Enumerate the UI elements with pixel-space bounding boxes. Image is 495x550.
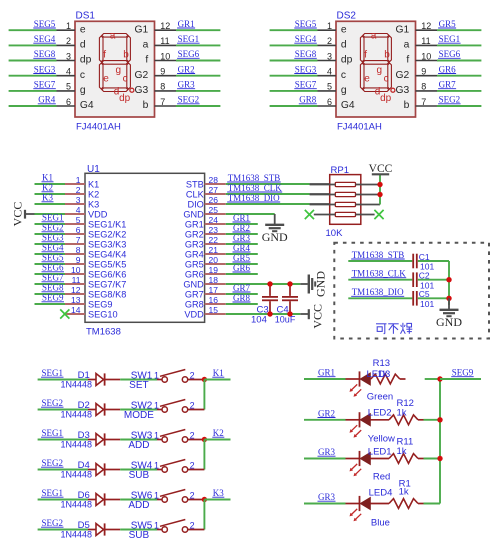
svg-text:GR3: GR3 [318, 447, 336, 457]
svg-text:19: 19 [209, 265, 219, 275]
svg-text:a: a [143, 40, 149, 51]
svg-text:FJ4401AH: FJ4401AH [337, 122, 382, 133]
svg-text:3: 3 [76, 195, 81, 205]
svg-text:4: 4 [327, 67, 332, 77]
svg-text:12: 12 [71, 285, 81, 295]
svg-text:SEG1: SEG1 [41, 428, 63, 438]
svg-text:GR8: GR8 [299, 95, 317, 105]
svg-text:1k: 1k [397, 446, 407, 457]
svg-text:4: 4 [66, 67, 71, 77]
svg-text:LED1: LED1 [368, 446, 392, 457]
svg-text:TM1638: TM1638 [86, 327, 121, 338]
svg-text:VDD: VDD [88, 209, 108, 219]
svg-text:5: 5 [66, 82, 71, 92]
svg-text:8: 8 [76, 245, 81, 255]
svg-text:SEG10: SEG10 [88, 309, 118, 319]
svg-text:SEG2: SEG2 [178, 95, 200, 105]
svg-text:GR4: GR4 [233, 243, 251, 253]
svg-text:e: e [364, 73, 370, 84]
svg-text:GR7: GR7 [439, 80, 457, 90]
svg-text:SEG6: SEG6 [42, 263, 64, 273]
svg-text:SEG8: SEG8 [42, 283, 64, 293]
svg-text:SEG2: SEG2 [41, 518, 63, 528]
svg-text:VCC: VCC [11, 202, 25, 227]
svg-text:3: 3 [327, 51, 332, 61]
svg-text:10: 10 [421, 51, 431, 61]
svg-text:2: 2 [66, 36, 71, 46]
svg-text:2: 2 [327, 36, 332, 46]
svg-text:c: c [80, 70, 85, 81]
svg-text:SEG1: SEG1 [178, 34, 200, 44]
svg-text:SUB: SUB [129, 470, 150, 481]
svg-text:GR8: GR8 [233, 293, 251, 303]
svg-text:f: f [406, 55, 409, 66]
svg-text:5: 5 [76, 215, 81, 225]
svg-text:6: 6 [76, 225, 81, 235]
svg-text:3: 3 [66, 51, 71, 61]
svg-text:2: 2 [190, 401, 195, 411]
svg-text:GR1: GR1 [178, 19, 195, 29]
svg-text:LED4: LED4 [369, 488, 393, 499]
svg-text:1: 1 [76, 175, 81, 185]
svg-text:GR2: GR2 [233, 223, 250, 233]
svg-text:GR5: GR5 [185, 259, 204, 269]
svg-text:2: 2 [190, 521, 195, 531]
svg-text:1N4448: 1N4448 [61, 499, 93, 509]
svg-text:K2: K2 [213, 428, 224, 438]
svg-text:20: 20 [209, 255, 219, 265]
svg-text:b: b [384, 50, 390, 61]
svg-text:G2: G2 [396, 70, 410, 81]
svg-text:a: a [404, 40, 410, 51]
svg-text:Green: Green [367, 391, 393, 402]
svg-text:a: a [110, 30, 116, 41]
svg-text:24: 24 [209, 215, 219, 225]
svg-text:f: f [364, 50, 367, 61]
svg-text:9: 9 [160, 67, 165, 77]
svg-text:1N4448: 1N4448 [61, 469, 93, 479]
svg-text:12: 12 [421, 21, 431, 31]
svg-text:11: 11 [160, 36, 169, 46]
svg-text:SET: SET [129, 380, 148, 391]
svg-text:SEG3: SEG3 [34, 64, 56, 74]
svg-text:R13: R13 [373, 358, 390, 369]
svg-text:VCC: VCC [310, 304, 324, 329]
svg-text:GR5: GR5 [439, 19, 457, 29]
svg-text:U1: U1 [87, 164, 100, 175]
svg-text:25: 25 [209, 205, 219, 215]
svg-text:11: 11 [421, 36, 430, 46]
svg-text:SEG8/K8: SEG8/K8 [88, 289, 126, 299]
svg-text:GR3: GR3 [185, 239, 204, 249]
svg-text:GR8: GR8 [185, 299, 204, 309]
svg-text:10: 10 [160, 51, 170, 61]
svg-text:SEG3: SEG3 [295, 64, 317, 74]
svg-text:e: e [103, 73, 109, 84]
svg-text:SEG3: SEG3 [42, 233, 64, 243]
svg-text:27: 27 [209, 185, 219, 195]
svg-text:SEG4: SEG4 [34, 34, 56, 44]
svg-text:dp: dp [80, 55, 92, 66]
svg-text:1: 1 [154, 461, 159, 471]
svg-text:7: 7 [160, 97, 165, 107]
svg-text:SEG8: SEG8 [34, 49, 56, 59]
svg-text:GR2: GR2 [185, 229, 204, 239]
svg-text:FJ4401AH: FJ4401AH [76, 122, 121, 133]
svg-text:18: 18 [209, 275, 219, 285]
svg-text:6: 6 [327, 97, 332, 107]
svg-text:1N4448: 1N4448 [61, 409, 93, 419]
svg-text:STB: STB [186, 179, 204, 189]
svg-text:13: 13 [71, 295, 81, 305]
svg-text:GR6: GR6 [185, 269, 204, 279]
svg-text:ADD: ADD [128, 500, 149, 511]
svg-text:C5: C5 [419, 289, 430, 299]
svg-text:b: b [123, 50, 129, 61]
svg-text:1: 1 [154, 431, 159, 441]
svg-text:g: g [377, 65, 383, 76]
svg-text:GR3: GR3 [178, 80, 196, 90]
svg-text:SEG4: SEG4 [42, 243, 64, 253]
svg-text:K1: K1 [42, 173, 53, 183]
svg-text:G3: G3 [135, 85, 149, 96]
svg-text:16: 16 [209, 295, 219, 305]
svg-text:10: 10 [71, 265, 81, 275]
svg-text:SEG4: SEG4 [295, 34, 317, 44]
svg-text:8: 8 [160, 82, 165, 92]
svg-text:MODE: MODE [124, 410, 154, 421]
svg-text:dp: dp [341, 55, 353, 66]
svg-text:GND: GND [314, 271, 328, 297]
svg-text:DIO: DIO [187, 199, 203, 209]
svg-text:2: 2 [76, 185, 81, 195]
svg-text:11: 11 [72, 275, 81, 285]
svg-text:RP1: RP1 [331, 165, 349, 176]
svg-text:Yellow: Yellow [368, 434, 395, 445]
svg-text:SEG1/K1: SEG1/K1 [88, 219, 126, 229]
svg-text:1: 1 [327, 21, 332, 31]
svg-text:Red: Red [373, 471, 390, 482]
svg-text:GR3: GR3 [318, 492, 336, 502]
svg-text:G1: G1 [396, 24, 410, 35]
svg-text:K3: K3 [42, 193, 53, 203]
svg-text:VDD: VDD [184, 309, 204, 319]
svg-text:101: 101 [420, 299, 434, 309]
svg-text:9: 9 [76, 255, 81, 265]
svg-text:10K: 10K [326, 228, 344, 239]
svg-text:8: 8 [421, 82, 426, 92]
svg-text:22: 22 [209, 235, 219, 245]
svg-text:K1: K1 [88, 179, 99, 189]
svg-text:14: 14 [71, 305, 81, 315]
svg-text:TM1638_STB: TM1638_STB [228, 173, 281, 183]
svg-text:e: e [341, 24, 347, 35]
svg-text:GR3: GR3 [233, 233, 251, 243]
svg-text:C2: C2 [419, 271, 430, 281]
svg-text:SEG5/K5: SEG5/K5 [88, 259, 126, 269]
svg-text:a: a [371, 30, 377, 41]
svg-text:SEG7: SEG7 [34, 80, 56, 90]
svg-text:SEG2: SEG2 [42, 223, 64, 233]
svg-text:9: 9 [421, 67, 426, 77]
svg-text:26: 26 [209, 195, 219, 205]
svg-text:SEG1: SEG1 [439, 34, 461, 44]
svg-text:1N4448: 1N4448 [61, 379, 93, 389]
svg-text:28: 28 [209, 175, 219, 185]
svg-text:GND: GND [183, 279, 204, 289]
svg-text:GR4: GR4 [38, 95, 56, 105]
svg-text:TM1638_STB: TM1638_STB [352, 250, 405, 260]
svg-text:DS1: DS1 [76, 11, 96, 22]
svg-text:K3: K3 [88, 199, 99, 209]
svg-text:1N4448: 1N4448 [61, 439, 93, 449]
svg-text:g: g [116, 65, 122, 76]
svg-text:CLK: CLK [186, 189, 205, 199]
svg-text:g: g [80, 85, 86, 96]
svg-text:1: 1 [154, 401, 159, 411]
svg-text:17: 17 [209, 285, 219, 295]
svg-text:SEG1: SEG1 [41, 368, 63, 378]
svg-text:GR2: GR2 [318, 408, 335, 418]
svg-text:SEG2: SEG2 [41, 458, 63, 468]
svg-text:2: 2 [190, 431, 195, 441]
svg-text:1: 1 [154, 491, 159, 501]
svg-text:GR4: GR4 [185, 249, 204, 259]
svg-text:23: 23 [209, 225, 219, 235]
svg-text:SEG9: SEG9 [452, 368, 474, 378]
svg-text:DS2: DS2 [337, 11, 357, 22]
svg-text:K2: K2 [42, 183, 53, 193]
svg-text:G1: G1 [135, 24, 149, 35]
svg-text:SEG7/K7: SEG7/K7 [88, 279, 126, 289]
svg-text:SEG1: SEG1 [42, 213, 64, 223]
svg-text:G4: G4 [80, 100, 94, 111]
svg-text:2: 2 [190, 461, 195, 471]
svg-text:LED2: LED2 [368, 408, 392, 419]
svg-text:Blue: Blue [371, 517, 390, 528]
svg-text:SEG5: SEG5 [42, 253, 64, 263]
svg-text:c: c [384, 73, 389, 84]
svg-text:1: 1 [154, 521, 159, 531]
svg-text:1: 1 [154, 371, 159, 381]
svg-text:dp: dp [380, 93, 392, 104]
svg-text:GR6: GR6 [233, 263, 251, 273]
svg-text:6: 6 [66, 97, 71, 107]
svg-text:4: 4 [76, 205, 81, 215]
svg-text:SEG7: SEG7 [295, 80, 317, 90]
svg-text:TM1638_CLK: TM1638_CLK [352, 269, 407, 279]
svg-text:SEG8: SEG8 [295, 49, 317, 59]
svg-text:TM1638_DIO: TM1638_DIO [352, 287, 404, 297]
svg-text:2: 2 [190, 371, 195, 381]
svg-text:G2: G2 [135, 70, 149, 81]
svg-text:TM1638_CLK: TM1638_CLK [228, 183, 283, 193]
svg-text:104: 104 [251, 315, 267, 326]
svg-text:g: g [341, 85, 347, 96]
svg-text:21: 21 [209, 245, 219, 255]
svg-text:e: e [80, 24, 86, 35]
svg-text:d: d [341, 40, 347, 51]
svg-text:1: 1 [66, 21, 71, 31]
svg-text:12: 12 [160, 21, 170, 31]
svg-text:K2: K2 [88, 189, 99, 199]
svg-text:1k: 1k [399, 486, 409, 497]
svg-text:SEG2: SEG2 [439, 95, 461, 105]
svg-text:GR7: GR7 [233, 283, 251, 293]
svg-text:VCC: VCC [369, 163, 393, 175]
svg-text:5: 5 [327, 82, 332, 92]
svg-text:GR5: GR5 [233, 253, 251, 263]
svg-text:SEG5: SEG5 [34, 19, 56, 29]
svg-text:1k: 1k [397, 408, 407, 419]
svg-text:GR1: GR1 [318, 368, 335, 378]
svg-text:GR1: GR1 [233, 213, 250, 223]
svg-text:GND: GND [183, 209, 204, 219]
svg-text:G3: G3 [396, 85, 410, 96]
svg-text:f: f [103, 50, 106, 61]
svg-text:TM1638_DIO: TM1638_DIO [228, 193, 280, 203]
svg-text:c: c [341, 70, 346, 81]
svg-text:f: f [145, 55, 148, 66]
svg-text:G4: G4 [341, 100, 355, 111]
svg-text:GR6: GR6 [439, 64, 457, 74]
svg-text:SEG9: SEG9 [42, 293, 64, 303]
svg-text:10uF: 10uF [275, 315, 296, 325]
svg-text:dp: dp [119, 93, 131, 104]
svg-text:K3: K3 [213, 488, 224, 498]
svg-text:GR1: GR1 [185, 219, 204, 229]
svg-text:GR2: GR2 [178, 64, 195, 74]
svg-text:7: 7 [421, 97, 426, 107]
svg-text:SEG6/K6: SEG6/K6 [88, 269, 126, 279]
svg-text:7: 7 [76, 235, 81, 245]
svg-text:SEG6: SEG6 [178, 49, 200, 59]
svg-text:b: b [404, 100, 410, 111]
svg-text:c: c [123, 73, 128, 84]
svg-text:GND: GND [436, 315, 462, 329]
svg-text:K1: K1 [213, 368, 224, 378]
svg-text:SEG1: SEG1 [41, 488, 63, 498]
svg-text:SEG4/K4: SEG4/K4 [88, 249, 126, 259]
svg-text:SEG9: SEG9 [88, 299, 113, 309]
svg-text:15: 15 [209, 305, 219, 315]
svg-text:C1: C1 [419, 252, 430, 262]
svg-text:1k: 1k [378, 369, 388, 380]
svg-text:SEG7: SEG7 [42, 273, 64, 283]
svg-text:GR7: GR7 [185, 289, 204, 299]
svg-text:GND: GND [262, 230, 288, 244]
svg-text:2: 2 [190, 491, 195, 501]
svg-text:SEG2: SEG2 [41, 398, 63, 408]
svg-text:SEG3/K3: SEG3/K3 [88, 239, 126, 249]
svg-text:ADD: ADD [128, 440, 149, 451]
svg-text:SEG6: SEG6 [439, 49, 461, 59]
svg-text:1N4448: 1N4448 [61, 529, 93, 539]
svg-text:d: d [80, 40, 86, 51]
svg-text:b: b [143, 100, 149, 111]
svg-text:SEG2/K2: SEG2/K2 [88, 229, 126, 239]
svg-text:SUB: SUB [129, 530, 150, 541]
svg-text:SEG5: SEG5 [295, 19, 317, 29]
